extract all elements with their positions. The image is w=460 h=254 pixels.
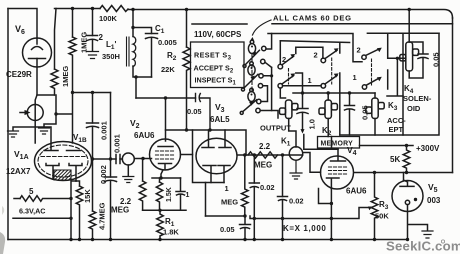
svg-text:1: 1 xyxy=(308,76,312,85)
resistor 4.7MEG zigzag xyxy=(89,211,96,240)
wire: G6 riser xyxy=(387,70,389,89)
svg-text:15K: 15K xyxy=(83,189,92,203)
leader arrow to cams xyxy=(253,20,272,35)
tube V4 envelope xyxy=(321,156,354,189)
wire: K3 section bottom rail xyxy=(340,134,403,136)
svg-text:K1: K1 xyxy=(281,137,291,148)
svg-text:350H: 350H xyxy=(102,52,120,61)
wire: relay rail y94 xyxy=(293,92,375,94)
svg-text:V6: V6 xyxy=(15,24,25,36)
tube V4 plate xyxy=(331,149,346,161)
svg-text:6AU6: 6AU6 xyxy=(346,187,367,196)
tube V1A cathode xyxy=(46,164,59,179)
relay K4 coil xyxy=(406,42,413,71)
resistor 2.2MEG drop xyxy=(142,159,144,182)
tube V3 left diode plate xyxy=(202,130,214,148)
wire: cap to pickup xyxy=(120,158,122,160)
contact circle 2 (lower row left) xyxy=(278,84,283,89)
wire: lower mid riser xyxy=(339,73,341,135)
svg-text:4.7MEG: 4.7MEG xyxy=(98,202,107,230)
tube V1 inner dashed envelope xyxy=(38,145,88,177)
contact arm lower mid xyxy=(325,76,337,84)
svg-text:2: 2 xyxy=(99,33,104,42)
svg-text:K=X 1,000: K=X 1,000 xyxy=(283,224,326,233)
resistor 1MEG (V6 grid leak) zigzag xyxy=(51,69,58,95)
svg-text:1.5K: 1.5K xyxy=(166,187,173,202)
wire: lamp to V1A grid xyxy=(34,105,36,144)
svg-text:OID: OID xyxy=(407,104,421,113)
wire: top B+ bus xyxy=(55,9,453,19)
contact circle 2 (K1 upper) xyxy=(278,64,283,69)
cam S1 xyxy=(250,88,254,92)
wire: K3 coil leads xyxy=(374,93,376,135)
wire: C1 bottom lead xyxy=(151,39,153,78)
capacitor C1 top lead xyxy=(133,28,152,34)
svg-text:K3: K3 xyxy=(388,101,398,112)
wire: tank junction down to grid rail xyxy=(135,77,137,98)
capacitor 0.02 (first) plates xyxy=(249,183,259,188)
wire: screen line segments xyxy=(92,93,94,212)
inductor L1 core lines xyxy=(127,37,130,66)
svg-text:SOLEN-: SOLEN- xyxy=(403,94,432,103)
resistor 1MEG (second) lead from bus xyxy=(72,9,74,38)
switch name box xyxy=(191,42,245,88)
wire: cathode rail xyxy=(152,177,181,179)
svg-text:2: 2 xyxy=(314,51,318,60)
svg-text:L1': L1' xyxy=(106,40,117,51)
capacitor 2 plates xyxy=(87,36,98,41)
svg-text:CE29R: CE29R xyxy=(6,70,32,79)
svg-text:0.001: 0.001 xyxy=(100,121,109,140)
tube V3 envelope xyxy=(196,138,237,174)
tube V3 right diode plate xyxy=(219,130,231,148)
capacitor 2 lower lead xyxy=(92,41,94,52)
tube V1A/V1B envelope xyxy=(35,142,92,181)
svg-text:0.05: 0.05 xyxy=(220,225,235,234)
contact circle (lower row mid) xyxy=(321,84,326,89)
wire: 110V upper stub xyxy=(192,23,247,25)
svg-text:OUTPUT: OUTPUT xyxy=(260,124,291,133)
S2 follower arm xyxy=(244,74,258,88)
arrowhead into V4 plate rail xyxy=(301,129,305,133)
capacitor 0.02 (second) plates xyxy=(278,197,288,240)
K1 contact tube circle xyxy=(289,147,302,160)
photocell light arrow xyxy=(20,112,26,114)
tube V1B cathode xyxy=(69,164,82,182)
K1 contact tube bar xyxy=(289,154,302,156)
ground (V5) xyxy=(422,231,433,238)
tube V5 envelope xyxy=(392,181,423,212)
wire: S3 lower contact to column xyxy=(265,62,286,110)
svg-text:V2: V2 xyxy=(130,118,140,130)
switch assembly outer box left part xyxy=(268,34,362,62)
contact circle (lower row right) xyxy=(362,85,366,89)
wire: S1 lower contact out xyxy=(260,111,278,119)
wire: K4 coil top from bus xyxy=(408,10,410,43)
svg-text:ACCEPT S2: ACCEPT S2 xyxy=(194,64,234,75)
svg-text:0.02: 0.02 xyxy=(289,197,304,206)
tube V3 right cathode xyxy=(218,166,230,183)
contact arm K1 upper xyxy=(282,56,294,65)
wire: V4 cathode drop xyxy=(330,189,332,240)
wire: K2 coil bottom to memory box xyxy=(327,119,329,137)
svg-text:R3: R3 xyxy=(379,200,389,211)
capacitor C1 plates xyxy=(146,34,158,39)
S1 contact circles xyxy=(257,99,261,103)
V3 cathode box xyxy=(193,130,225,183)
capacitor 1.0 leads and plates xyxy=(297,93,308,131)
resistor 15K zigzag xyxy=(76,186,83,240)
tube V1 heater box hatched xyxy=(54,170,71,180)
tube V5 pins xyxy=(405,200,409,204)
capacitor 0.05 (K3) leads and plates xyxy=(345,93,355,135)
tube V5 plate xyxy=(400,173,414,187)
wire: K1 contact to V4 grid xyxy=(303,153,321,173)
wire: S2 lower to S1 upper xyxy=(261,86,268,102)
capacitor 0.05 (K4) leads and plates xyxy=(409,42,428,78)
svg-text:2.2: 2.2 xyxy=(259,142,271,151)
svg-text:0.001: 0.001 xyxy=(113,134,122,153)
K1 contact tube stem and base xyxy=(290,160,302,179)
wire: V2 to V3 box stub xyxy=(181,154,193,156)
wire: V3 right drop to bus xyxy=(253,155,255,240)
mechanical link dashed (K2) xyxy=(331,58,333,84)
wire: K=X rail xyxy=(250,208,369,219)
svg-text:100K: 100K xyxy=(99,14,118,23)
tube V6 envelope xyxy=(23,38,52,67)
wire: pickup to V2 grid xyxy=(134,158,151,160)
capacitor 0.05 (output) leads and plates xyxy=(240,216,251,240)
svg-text:MEG: MEG xyxy=(111,206,129,215)
wire: screen rail y92 xyxy=(73,92,111,94)
wire: memory B+ rail xyxy=(360,145,414,147)
S3 follower arm xyxy=(246,50,260,64)
wire: arm riser to rail xyxy=(339,43,341,53)
pickup ground stem xyxy=(127,165,129,176)
resistor R2 22K zigzag xyxy=(183,47,190,130)
tube V2 grid dashes xyxy=(156,151,176,159)
wire: rail to K1 contact circle xyxy=(279,41,281,65)
svg-text:0.02: 0.02 xyxy=(260,183,275,192)
wire: V6 cathode down to lamp xyxy=(35,59,37,105)
svg-text:0.002: 0.002 xyxy=(99,165,108,184)
wire: V3 output wire y155 xyxy=(238,154,290,156)
wire: cathode drop to filament rail xyxy=(71,181,76,240)
wire: 6.3V AC lower stub xyxy=(13,217,71,219)
switch assembly outer box right part xyxy=(367,32,439,34)
capacitor 0.002 plates xyxy=(105,177,117,182)
wire: left bus xyxy=(7,9,9,240)
svg-text:1: 1 xyxy=(353,73,357,82)
memory box xyxy=(318,137,360,149)
wire: K1 tap drop xyxy=(282,155,284,197)
wire: right bus xyxy=(452,18,454,173)
contact arm lower right xyxy=(366,78,379,85)
cam linkage dashed xyxy=(251,54,253,92)
svg-text:+300V: +300V xyxy=(416,144,440,153)
resistor 2.2MEG (output) zigzag xyxy=(248,152,277,158)
resistor 2.2MEG zigzag xyxy=(139,181,146,210)
svg-text:R1: R1 xyxy=(165,217,175,228)
tube V6 internal filament xyxy=(32,47,43,50)
capacitor 2 lead from bus xyxy=(92,9,94,36)
contact arm K2 upper xyxy=(325,50,337,58)
resistor 5 zigzag xyxy=(20,196,71,202)
contact arm K3 upper xyxy=(366,49,379,55)
tube V1A plate xyxy=(44,150,58,152)
wire: V2 plate rail to V3 xyxy=(166,130,247,155)
resistor 5K zigzag xyxy=(403,146,410,173)
svg-text:1MEG: 1MEG xyxy=(61,66,70,87)
svg-text:12AX7: 12AX7 xyxy=(6,167,31,176)
wire: y216 rail xyxy=(206,215,246,217)
svg-text:MEG: MEG xyxy=(221,198,238,207)
svg-text:1: 1 xyxy=(186,192,190,199)
wire: V6 plate to left bus xyxy=(8,9,37,45)
wire: S2 upper stub xyxy=(263,76,271,77)
wire: V4 aux stub xyxy=(319,189,332,204)
inductor L1 coil bumps xyxy=(133,37,136,67)
contact arm lower left xyxy=(282,76,294,84)
wire: arm to rail R2 xyxy=(296,47,323,58)
tube V2 envelope xyxy=(150,139,181,170)
photocell lamp symbol xyxy=(27,105,43,121)
resistor 5 (filament) wire xyxy=(14,198,20,200)
contact circle (K3 upper) xyxy=(362,55,366,59)
capacitor 0.001 (on screen line) plates xyxy=(87,123,99,128)
resistor 100K zigzag on bus xyxy=(100,6,128,12)
wire: K2 coil top lead xyxy=(327,93,329,100)
wire: G5 output riser and K4 feed xyxy=(387,33,405,96)
svg-text:V5: V5 xyxy=(428,182,438,194)
ground (top of V1A plate) xyxy=(13,127,51,150)
tube V2 cathode xyxy=(159,164,172,170)
svg-text:MEG: MEG xyxy=(254,161,272,170)
svg-text:INSPECT S1: INSPECT S1 xyxy=(195,76,237,87)
S3 contact circles xyxy=(262,46,266,50)
resistor R1 1.8K zigzag xyxy=(157,210,164,239)
svg-text:1.0: 1.0 xyxy=(308,119,317,129)
wire: V5 cathode to bus and ground xyxy=(408,205,428,240)
svg-text:5K: 5K xyxy=(390,155,400,164)
svg-text:0.05: 0.05 xyxy=(432,52,441,67)
wire: V3 box descender xyxy=(205,183,207,217)
wire: cathode rail to grid resistor xyxy=(37,94,55,96)
svg-text:0.05: 0.05 xyxy=(187,107,202,116)
tube V6 internal cathode bar xyxy=(29,58,46,60)
wire: V2 cathode down xyxy=(161,170,163,178)
svg-text:R2: R2 xyxy=(167,51,177,62)
resistor 1MEG (V6 grid leak) lead xyxy=(55,9,57,70)
pickup head symbol circle xyxy=(122,153,134,165)
svg-text:003: 003 xyxy=(427,196,441,205)
wire: upper 110V rail long segment xyxy=(272,23,453,25)
relay contact rail R1 xyxy=(280,41,349,43)
mechanical link dashed (K1) xyxy=(288,69,290,85)
S3 pivot xyxy=(243,65,246,68)
wire: V2 plate top lead xyxy=(165,98,167,141)
tube V4 cathode xyxy=(327,178,340,189)
tube V3 left cathode xyxy=(203,166,216,183)
resistor 1MEG (second) zigzag xyxy=(69,37,76,93)
capacitor 0.05 (V3 coupling) plates xyxy=(196,94,211,131)
wire: V4 plate rail y172.5 xyxy=(354,172,453,174)
capacitor 0.001 (input coupling) plates xyxy=(116,155,120,164)
svg-text:0.005: 0.005 xyxy=(158,38,177,47)
contact circle (K2 upper) xyxy=(321,58,326,63)
wire: memory box rail riser xyxy=(331,137,333,149)
relay K3 coil xyxy=(372,98,378,119)
wire: cathode network bottom rail xyxy=(143,209,186,211)
svg-text:6.3V,AC: 6.3V,AC xyxy=(19,207,46,216)
tube V2 plate bar xyxy=(158,146,173,148)
ground (second, near V1 plates) xyxy=(44,114,56,127)
wire: rail y98 xyxy=(136,97,196,99)
svg-text:RESET S3: RESET S3 xyxy=(194,51,232,62)
svg-text:EPT: EPT xyxy=(389,125,404,134)
svg-text:50K: 50K xyxy=(375,212,389,221)
ground (pickup) xyxy=(123,177,134,183)
S2 contact circles xyxy=(259,74,263,78)
svg-text:V4: V4 xyxy=(347,145,357,157)
K4 box xyxy=(403,33,439,135)
svg-text:V3: V3 xyxy=(215,102,225,114)
tube V1B plate xyxy=(67,150,81,152)
cam S2 xyxy=(250,62,254,66)
S1 pivot xyxy=(240,111,243,114)
wire: lower rail left xyxy=(283,85,321,87)
S2 pivot xyxy=(242,88,245,91)
tube V4 grid dashes xyxy=(329,167,347,174)
wire: V4 plate rail to switch xyxy=(304,135,338,150)
svg-text:6AU6: 6AU6 xyxy=(134,131,155,140)
resistor 1.5K zigzag xyxy=(156,182,162,210)
svg-text:SeekIC.com: SeekIC.com xyxy=(386,239,460,254)
svg-text:22K: 22K xyxy=(161,65,175,74)
wire: box top to S3 upper contact xyxy=(266,34,272,50)
resistor R2 lead from bus xyxy=(186,10,188,48)
resistor R3 50K xyxy=(371,173,378,240)
resistor 1MEG (V3 load) xyxy=(242,155,249,216)
wire: L1 bottom to junction xyxy=(133,66,152,77)
wire: lower arm to V4 plate drop xyxy=(296,73,303,93)
tube V1 grid dashes xyxy=(41,156,85,158)
capacitor 0.002 lower lead xyxy=(110,182,112,240)
svg-text:1: 1 xyxy=(225,184,229,193)
resistor 15K lead xyxy=(76,181,80,186)
svg-text:V1A: V1A xyxy=(14,149,29,161)
wire: grid wire y159 xyxy=(93,158,117,160)
wire: bottom ground bus xyxy=(8,239,406,241)
capacitor 1 (cathode bypass) leads and plates xyxy=(176,178,185,210)
svg-text:K2: K2 xyxy=(322,126,332,137)
wire: 1MEG junction to V1B plate xyxy=(56,93,73,144)
cam S3 xyxy=(250,40,254,44)
resistor 1.5K lead xyxy=(159,178,161,182)
wire: K1 coil bottom to contact tube xyxy=(289,119,296,148)
svg-text:2: 2 xyxy=(357,46,361,55)
ground (cap 2) xyxy=(87,52,99,59)
svg-text:1.8K: 1.8K xyxy=(163,228,179,237)
relay K2 coil xyxy=(325,100,331,119)
mechanical link dashed (K3) xyxy=(371,59,373,85)
wire: second divider line xyxy=(110,93,112,178)
wire: L1 top lead from bus xyxy=(132,10,134,37)
svg-text:6AL5: 6AL5 xyxy=(210,115,230,124)
svg-text:110V, 60CPS: 110V, 60CPS xyxy=(194,30,242,39)
svg-text:5: 5 xyxy=(29,187,34,196)
svg-text:ALL CAMS 60 DEG: ALL CAMS 60 DEG xyxy=(273,14,352,23)
relay K1 coil xyxy=(286,100,292,119)
svg-text:V1B: V1B xyxy=(73,133,87,144)
corner smudge xyxy=(0,232,5,254)
S1 follower arm xyxy=(243,100,257,112)
